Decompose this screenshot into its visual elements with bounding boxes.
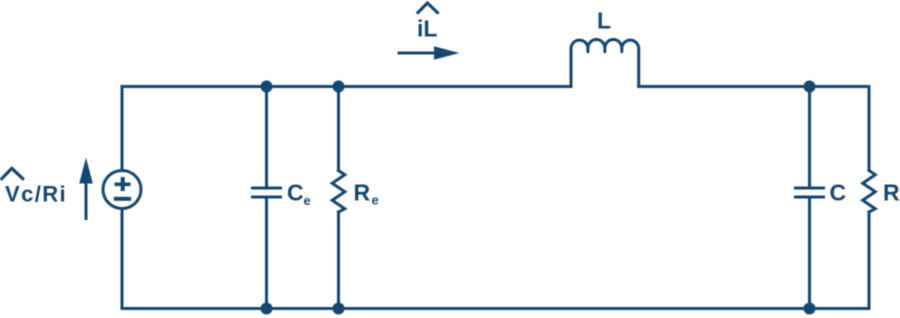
svg-text:e: e [304,193,311,208]
svg-text:iL: iL [417,16,437,42]
svg-text:Vc/Ri: Vc/Ri [5,182,67,207]
svg-text:C: C [830,179,847,205]
svg-text:R: R [354,180,371,206]
svg-text:R: R [883,179,900,205]
svg-text:L: L [597,7,611,33]
svg-text:e: e [372,193,379,208]
svg-text:C: C [287,179,304,205]
